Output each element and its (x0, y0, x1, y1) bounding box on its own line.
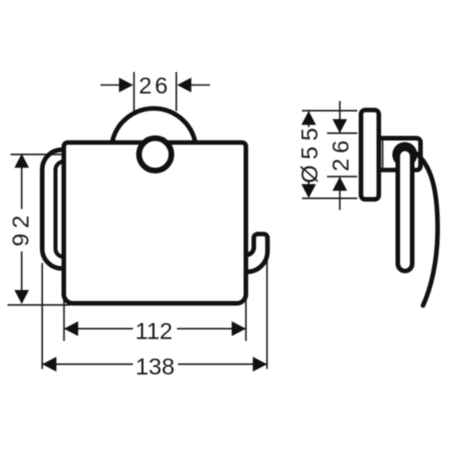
svg-text:26: 26 (139, 72, 171, 98)
svg-text:112: 112 (135, 318, 172, 344)
extension line 112 left (63, 300, 65, 341)
dim line 26 side lower (339, 177, 341, 210)
roll bar outer contour (42, 150, 64, 269)
dim line 92 upper segment (21, 155, 23, 209)
arrow D55 top (points up) (301, 111, 316, 125)
arrow 138 left (points left) (42, 357, 56, 372)
pivot circle (139, 138, 171, 170)
svg-text:26: 26 (327, 135, 353, 171)
arrow 26 side bottom (points up) (333, 177, 348, 191)
arrow 112 right (points right) (232, 321, 246, 336)
dim line D55 upper segment (308, 112, 310, 127)
extension line top of 26 right (175, 72, 177, 111)
roll bar inner contour (56, 162, 64, 257)
dim line 112 left segment (64, 328, 133, 330)
paper hook tab (246, 234, 268, 272)
extension line top of 26 left (133, 72, 135, 113)
extension line 138 right (266, 258, 268, 370)
dim line 26 side upper (339, 101, 341, 133)
wall plate side profile (361, 110, 379, 199)
swing arm curve (417, 154, 438, 306)
arrow 26 right (points left) (177, 78, 191, 93)
extension line 26 side top (327, 132, 357, 134)
roll bar side profile (398, 149, 412, 271)
dim line 26 left segment (101, 84, 120, 86)
extension line D55 top (302, 110, 357, 112)
dim line 138 left segment (42, 363, 133, 365)
svg-text:92: 92 (8, 210, 34, 246)
dim line 92 lower segment (21, 252, 23, 303)
arrow 138 right (points right) (253, 357, 267, 372)
extension line 92 top (11, 153, 134, 155)
arrow 26 left (points right) (119, 78, 133, 93)
svg-text:Ø55: Ø55 (296, 122, 322, 183)
extension line 26 side bottom (327, 176, 357, 178)
dome arc (112, 108, 195, 141)
extension line 112 right (245, 300, 247, 341)
bracket gap line (382, 140, 384, 169)
cover plate outline (64, 143, 246, 304)
arrow 26 side top (points down) (333, 119, 348, 133)
extension line D55 bottom (302, 197, 357, 199)
dim line D55 lower segment (308, 181, 310, 185)
arrow 92 bottom (points down) (14, 290, 29, 304)
arrow 112 left (points left) (64, 321, 78, 336)
pivot hub (filled) (392, 142, 417, 167)
extension line 92 bottom (8, 304, 71, 306)
mount bracket (379, 138, 421, 170)
dim line 26 right segment (191, 84, 210, 86)
svg-text:138: 138 (135, 354, 174, 380)
extension line 138 left (41, 263, 43, 369)
arrow D55 bottom (points down) (301, 184, 316, 198)
dim line 138 right segment (178, 363, 267, 365)
dim line 112 right segment (177, 328, 246, 330)
arrow 92 top (points up) (14, 154, 29, 168)
